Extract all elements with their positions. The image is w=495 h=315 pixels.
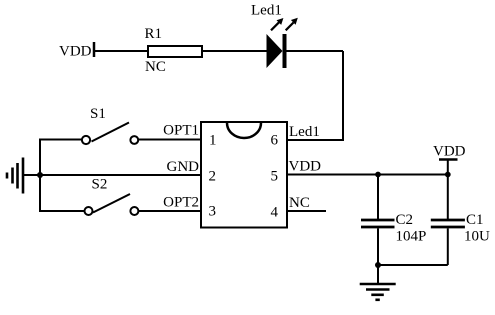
svg-text:Led1: Led1 (251, 3, 282, 19)
junction dot bottom (375, 262, 381, 268)
wire rail to S1 (40, 139, 82, 141)
svg-text:OPT2: OPT2 (163, 195, 199, 211)
svg-text:VDD: VDD (289, 159, 322, 175)
op-amp U1 (6-pin IC body) (201, 122, 287, 228)
svg-text:1: 1 (209, 133, 217, 149)
svg-text:S1: S1 (90, 106, 106, 122)
svg-text:104P: 104P (396, 229, 427, 245)
wire GND row to pin 2 (40, 174, 201, 176)
svg-text:4: 4 (271, 205, 279, 221)
wire S2 to pin 3 (138, 210, 201, 212)
svg-text:NC: NC (145, 59, 166, 75)
wire riser corner down to pin 6 (287, 51, 343, 140)
resistor R1 (145, 26, 203, 75)
svg-text:3: 3 (209, 204, 217, 220)
wire bottom between C2 and C1 (378, 264, 448, 266)
wire VDD bar to R1 (95, 50, 148, 52)
svg-text:NC: NC (289, 195, 310, 211)
wire left rail vertical (39, 139, 41, 213)
switch S1 (82, 106, 138, 144)
svg-text:VDD: VDD (59, 44, 92, 60)
wire LED to corner (287, 50, 344, 52)
svg-text:5: 5 (271, 169, 279, 185)
power symbol VDD (right) (433, 144, 466, 175)
svg-text:GND: GND (167, 159, 200, 175)
switch S2 (85, 177, 139, 216)
svg-text:10U: 10U (464, 229, 490, 245)
svg-text:S2: S2 (92, 177, 108, 193)
svg-text:C2: C2 (396, 212, 414, 228)
junction dot left rail (37, 172, 43, 178)
ground (left) (7, 158, 40, 194)
svg-text:VDD: VDD (433, 144, 466, 160)
wire pin 5 VDD rail (287, 174, 449, 176)
junction dot at C1/VDD branch (445, 172, 451, 178)
wire S1 to pin 1 (138, 139, 201, 141)
svg-text:6: 6 (271, 133, 279, 149)
capacitor C2 (361, 175, 426, 266)
svg-text:OPT1: OPT1 (163, 123, 199, 139)
wire rail to S2 (40, 210, 85, 212)
capacitor C1 (431, 175, 490, 266)
svg-text:C1: C1 (466, 212, 484, 228)
junction dot at C2 branch (375, 172, 381, 178)
svg-text:R1: R1 (145, 26, 163, 42)
wire pin 4 NC stub (287, 210, 326, 212)
power symbol VDD (top-left) (59, 42, 94, 60)
ground (bottom) (360, 265, 396, 300)
svg-text:2: 2 (209, 169, 217, 185)
svg-text:Led1: Led1 (289, 124, 320, 140)
wire R1 to LED (202, 50, 267, 52)
LED Led1 (251, 3, 298, 69)
